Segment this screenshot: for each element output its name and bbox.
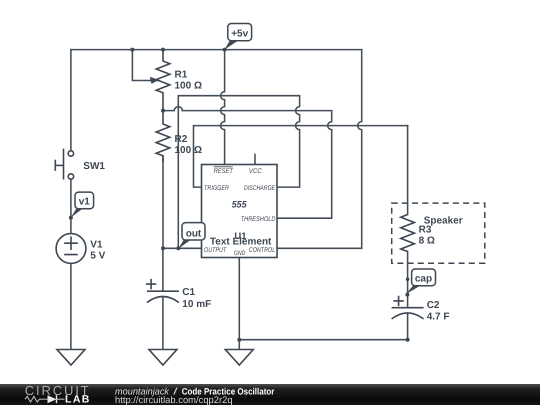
svg-text:http://circuitlab.com/cqp2r2q: http://circuitlab.com/cqp2r2q: [115, 395, 233, 405]
net flag v1: [71, 192, 94, 218]
svg-text:10 mF: 10 mF: [182, 299, 211, 310]
ground (U1 GND): [225, 350, 253, 366]
node on top bus at R1 top: [161, 48, 165, 52]
net flag +5v: [225, 24, 252, 50]
speaker dashed box: [392, 203, 485, 263]
wire OUTPUT to node: [163, 247, 202, 249]
svg-text:VCC: VCC: [249, 168, 262, 175]
node R1/R2 junction: [161, 109, 165, 113]
svg-text:v1: v1: [79, 197, 91, 208]
resistor R3: [401, 215, 415, 252]
node output junction at out flag: [176, 246, 180, 250]
ground (V1): [57, 350, 85, 366]
svg-text:4.7 F: 4.7 F: [427, 312, 450, 323]
svg-text:THRESHOLD: THRESHOLD: [241, 216, 276, 223]
pin label RESET (active low): [214, 168, 234, 175]
node on top bus at +5v: [223, 48, 227, 52]
svg-text:GND: GND: [234, 250, 246, 257]
wire VCC stub: [254, 155, 256, 165]
svg-text:+5v: +5v: [231, 28, 248, 39]
node GND bottom left: [237, 338, 241, 342]
wire top bus: [71, 49, 362, 51]
svg-text:DISCHARGE: DISCHARGE: [244, 185, 276, 192]
wire C2 bottom to bottom run: [407, 314, 409, 340]
svg-text:out: out: [186, 229, 202, 240]
wire ground stem under GND node: [238, 340, 240, 350]
svg-text:LAB: LAB: [65, 394, 91, 405]
svg-text:5 V: 5 V: [90, 250, 105, 261]
svg-text:R1: R1: [175, 69, 188, 80]
footer bar: [0, 384, 540, 405]
CircuitLab logo: [25, 383, 91, 405]
capacitor C2: [392, 296, 424, 319]
svg-text:SW1: SW1: [83, 161, 105, 172]
svg-text:TRIGGER: TRIGGER: [204, 185, 229, 192]
svg-text:V1: V1: [90, 239, 103, 250]
svg-text:555: 555: [232, 200, 248, 211]
wire C: TRIGGER riser across to speaker branch: [194, 126, 408, 188]
svg-text:CONTROL: CONTROL: [249, 247, 276, 254]
wire SW1 to V1: [70, 179, 72, 233]
svg-text:OUTPUT: OUTPUT: [204, 247, 227, 254]
svg-text:R2: R2: [175, 134, 188, 145]
svg-text:100 Ω: 100 Ω: [175, 81, 202, 92]
svg-text:cap: cap: [415, 274, 432, 285]
voltage source V1: [56, 234, 86, 264]
wire RESET riser: [221, 50, 225, 165]
svg-text:R3: R3: [419, 225, 432, 236]
RESET active-low overline: [214, 166, 233, 168]
wire R1 wiper tap: [132, 50, 150, 81]
wire left branch vertical: [70, 50, 72, 151]
node cap anchor: [405, 293, 409, 297]
svg-text:C2: C2: [427, 300, 440, 311]
R1 wiper arrowhead: [150, 77, 159, 84]
wire R2 bottom to output node: [162, 156, 164, 248]
wire GND pin down and bottom run: [239, 258, 407, 340]
node v1 anchor: [69, 216, 73, 220]
resistor R2: [156, 111, 170, 162]
svg-text:100 Ω: 100 Ω: [175, 145, 202, 156]
wire speaker to C2: [407, 252, 409, 308]
wire C1 to ground: [162, 297, 164, 350]
svg-text:C1: C1: [182, 287, 195, 298]
IC U1 555 timer body: [202, 165, 278, 258]
wire output node to C1: [162, 248, 164, 291]
wire V1 to ground: [70, 263, 72, 349]
svg-text:RESET: RESET: [214, 168, 234, 175]
wire B: R1/R2 junction to THRESHOLD: [163, 107, 332, 219]
wire speaker branch top: [407, 126, 409, 215]
node on top bus at wiper tap: [130, 48, 134, 52]
node bottom right: [406, 338, 410, 342]
node output junction left: [161, 246, 165, 250]
wire CONTROL riser from top bus down to CONTROL pin: [277, 50, 362, 249]
R1 wiper arm: [150, 80, 158, 82]
net flag out: [178, 223, 205, 249]
switch SW1: [55, 149, 73, 180]
wire A: output column riser and discharge run: [178, 96, 299, 249]
capacitor C1: [146, 279, 179, 303]
svg-text:8 Ω: 8 Ω: [419, 236, 435, 247]
potentiometer R1: [156, 50, 170, 111]
net flag cap: [406, 269, 436, 294]
node speaker/C2 junction: [406, 278, 410, 282]
svg-text:Text Element: Text Element: [210, 236, 272, 247]
ground (C1): [149, 350, 177, 366]
